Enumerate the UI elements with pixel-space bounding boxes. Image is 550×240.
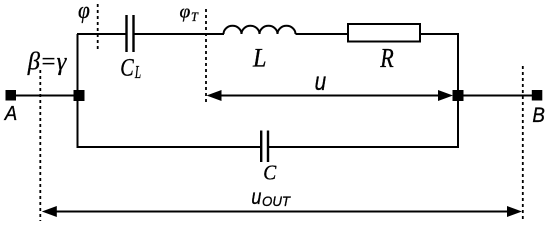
capacitor C xyxy=(261,131,268,163)
wire left vertical lower xyxy=(77,96,79,149)
wire top left to CL xyxy=(77,33,127,35)
svg-text:C: C xyxy=(263,163,276,185)
wire bottom right xyxy=(268,146,459,148)
svg-text:A: A xyxy=(3,102,17,125)
wire A to left node xyxy=(11,95,79,97)
dashed line beta-gamma xyxy=(39,70,41,221)
svg-text:β=γ: β=γ xyxy=(27,47,67,76)
wire left vertical upper xyxy=(77,34,79,96)
resistor R xyxy=(348,24,420,42)
svg-text:C: C xyxy=(120,55,134,82)
svg-text:R: R xyxy=(380,42,394,73)
arrow uOUT xyxy=(42,206,522,217)
label CL xyxy=(120,55,141,82)
svg-text:u: u xyxy=(315,69,327,96)
label phi T xyxy=(180,2,200,24)
wire inductor to resistor xyxy=(296,33,349,35)
terminal A xyxy=(6,90,17,101)
wire bottom left xyxy=(77,146,261,148)
label uOUT xyxy=(251,186,291,209)
wire CL to inductor xyxy=(134,33,225,35)
svg-text:φ: φ xyxy=(180,2,191,23)
wire right vertical lower xyxy=(457,96,459,149)
wire resistor to right corner xyxy=(420,33,459,35)
svg-text:OUT: OUT xyxy=(262,193,291,209)
dashed line phi xyxy=(97,4,99,52)
dashed line right B xyxy=(522,66,524,219)
svg-text:u: u xyxy=(251,186,261,209)
capacitor CL xyxy=(127,15,134,52)
terminal B xyxy=(532,90,543,101)
wire right vertical upper xyxy=(457,33,459,96)
dashed line phi T xyxy=(205,9,207,104)
node left junction xyxy=(74,90,85,101)
wire right node to B xyxy=(458,95,537,97)
arrow u xyxy=(207,90,454,101)
svg-text:L: L xyxy=(252,42,266,72)
node right junction xyxy=(453,90,464,101)
svg-text:B: B xyxy=(532,103,545,127)
svg-text:L: L xyxy=(134,62,141,82)
inductor L xyxy=(224,26,296,34)
svg-text:T: T xyxy=(191,10,199,24)
svg-text:φ: φ xyxy=(78,0,90,24)
